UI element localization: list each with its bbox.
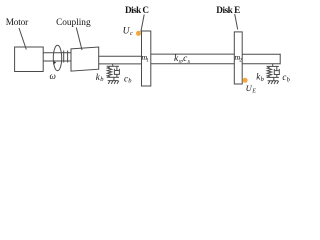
coupling sleeve tick 2 xyxy=(67,51,69,63)
svg-text:Disk C: Disk C xyxy=(125,5,149,15)
disk C xyxy=(142,31,151,86)
unbalance dot disk C xyxy=(136,31,141,36)
bearing 2 hanger stem xyxy=(272,64,274,67)
rotation arrow ellipse omega xyxy=(53,45,61,70)
svg-text:c: c xyxy=(130,31,133,37)
wire shaft disk C to disk E xyxy=(151,53,235,55)
svg-text:Coupling: Coupling xyxy=(56,18,91,28)
spring k_b left xyxy=(107,66,111,77)
label leader line Disk E xyxy=(235,14,238,30)
ground 1 xyxy=(108,81,119,84)
bearing 1 hanger stem xyxy=(112,64,114,66)
svg-text:2: 2 xyxy=(239,57,242,63)
wire shaft motor to coupling xyxy=(43,52,71,54)
disk E xyxy=(234,32,242,84)
svg-text:ω: ω xyxy=(50,71,56,81)
bearing 2 stem xyxy=(273,77,275,80)
bearing 2 bottom bar xyxy=(267,76,279,78)
svg-text:Disk E: Disk E xyxy=(216,5,240,15)
bearing 2 top bar xyxy=(267,65,279,67)
bearing 1 bottom bar xyxy=(107,76,119,78)
damper c_b left xyxy=(114,66,119,77)
ground 2 xyxy=(268,81,279,84)
bearing 1 stem xyxy=(113,77,115,80)
rotation arrowhead xyxy=(53,61,56,64)
label leader line Coupling xyxy=(76,28,82,51)
motor box xyxy=(15,47,44,72)
label leader line Disk C xyxy=(141,15,144,32)
wire shaft coupling to disk C xyxy=(99,55,142,57)
svg-text:E: E xyxy=(251,89,256,95)
shaft end cap xyxy=(279,54,281,65)
damper c_b right xyxy=(274,66,279,77)
coupling sleeve tick 1 xyxy=(63,51,65,63)
coupling box xyxy=(71,47,99,71)
bearing 1 top bar xyxy=(107,65,119,67)
spring k_b right xyxy=(267,66,271,77)
unbalance dot disk E xyxy=(243,78,248,83)
label leader line Motor xyxy=(19,28,26,50)
svg-text:Motor: Motor xyxy=(6,18,29,28)
svg-text:1: 1 xyxy=(146,57,149,63)
wire shaft disk E to end cap xyxy=(242,53,280,55)
